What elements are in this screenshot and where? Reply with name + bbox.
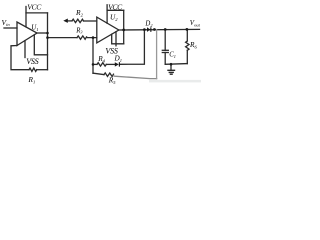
svg-text:D1: D1 [114,55,122,64]
svg-text:R4: R4 [97,54,105,64]
svg-text:R1: R1 [27,75,35,85]
svg-text:R6: R6 [189,40,197,50]
svg-text:Vin: Vin [2,18,11,27]
svg-text:R2: R2 [75,8,84,18]
svg-text:VCC: VCC [108,3,123,12]
svg-text:Vout: Vout [190,19,201,28]
svg-text:R3: R3 [75,27,82,34]
svg-text:VSS: VSS [26,57,38,66]
svg-text:VCC: VCC [27,3,42,12]
svg-text:C1: C1 [169,52,176,59]
svg-text:R5: R5 [108,76,116,86]
svg-text:U2: U2 [110,12,118,22]
svg-text:U1: U1 [31,23,38,31]
svg-text:D2: D2 [144,21,152,28]
